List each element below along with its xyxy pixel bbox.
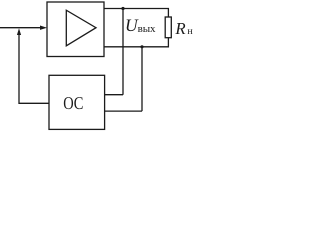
svg-text:ОС: ОС [63, 93, 83, 113]
svg-text:н: н [187, 26, 193, 37]
svg-text:вых: вых [138, 23, 156, 35]
svg-text:R: R [174, 19, 185, 38]
